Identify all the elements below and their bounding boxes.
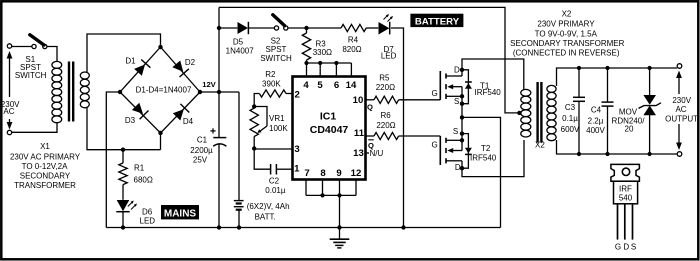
svg-text:G: G (432, 89, 438, 98)
node battery rail junction (237, 225, 241, 229)
svg-text:C1: C1 (197, 136, 208, 145)
node bridge left (118, 90, 122, 94)
resistor R1 (119, 150, 127, 200)
svg-text:10: 10 (353, 95, 364, 106)
diode D5 (238, 22, 249, 34)
transformer X1 (52, 61, 89, 122)
node output terminal bottom (677, 152, 682, 157)
bridge rectifier arms (120, 47, 161, 92)
svg-text:11: 11 (354, 128, 365, 139)
svg-text:8: 8 (320, 168, 326, 179)
wire 12V node to C1 column (200, 91, 239, 93)
resistor R3 (302, 28, 310, 63)
switch S2 (273, 15, 288, 30)
wire (249, 27, 274, 29)
node T2 drain (460, 166, 464, 170)
svg-text:D6: D6 (142, 208, 153, 217)
230V AC output arrow (676, 71, 682, 151)
LED D6 (116, 200, 137, 228)
wire common source (461, 96, 463, 140)
node T2 source (460, 138, 464, 142)
wire bridge bottom stub (160, 133, 162, 150)
svg-text:2: 2 (295, 89, 300, 100)
svg-text:0.1µ: 0.1µ (562, 114, 578, 123)
svg-text:BATTERY: BATTERY (415, 16, 460, 27)
svg-text:CD4047: CD4047 (310, 124, 349, 136)
svg-text:X2: X2 (562, 10, 572, 19)
wire X2 secondary top to output rail (557, 68, 678, 86)
capacitor C4 (602, 68, 614, 154)
node D7 rail junction (401, 225, 405, 229)
svg-text:SWITCH: SWITCH (260, 54, 292, 63)
node bridge right 12V (198, 90, 202, 94)
node T1 body tie (460, 102, 464, 106)
node T1 source (460, 94, 464, 98)
svg-text:SECONDARY TRANSFORMER: SECONDARY TRANSFORMER (510, 39, 624, 48)
node ground rail junction (337, 225, 341, 229)
svg-text:230V: 230V (672, 96, 691, 105)
svg-text:AC: AC (675, 105, 686, 114)
svg-text:VR1: VR1 (269, 114, 285, 123)
ground (330, 228, 350, 248)
node common source junction (460, 115, 464, 119)
svg-text:390K: 390K (262, 80, 281, 89)
svg-text:S: S (631, 243, 636, 252)
svg-text:9: 9 (336, 168, 341, 179)
svg-text:OUTPUT: OUTPUT (665, 114, 698, 123)
wire common source to ground rail (462, 117, 501, 227)
varistor MOV (639, 68, 662, 154)
node C3 bottom (577, 152, 581, 156)
capacitor C2 (271, 164, 277, 175)
svg-text:T2: T2 (481, 144, 491, 153)
svg-text:2.2µ: 2.2µ (588, 117, 604, 126)
svg-text:D4: D4 (183, 117, 194, 126)
svg-text:7: 7 (304, 168, 309, 179)
svg-text:D: D (454, 65, 460, 74)
wire top rail to X2 center tap (219, 7, 520, 113)
wire D7 cathode down to rail (391, 28, 404, 228)
diode T1 body (462, 70, 472, 104)
svg-text:TO 9V-0-9V, 1.5A: TO 9V-0-9V, 1.5A (535, 29, 598, 38)
svg-text:IRF: IRF (619, 185, 632, 194)
resistor R2 (254, 90, 292, 105)
svg-text:G: G (432, 140, 438, 149)
label BATTERY (410, 14, 463, 27)
wire T2 drain to X2 bottom (462, 140, 524, 177)
node MOV top (648, 66, 652, 70)
node T1 drain (460, 68, 464, 72)
svg-text:540: 540 (619, 193, 633, 202)
svg-text:330Ω: 330Ω (313, 48, 332, 57)
svg-text:AC: AC (3, 107, 14, 116)
svg-text:S: S (453, 127, 458, 136)
svg-text:LED: LED (140, 217, 156, 226)
capacitor C3 (573, 68, 585, 154)
svg-text:230V PRIMARY: 230V PRIMARY (537, 20, 595, 29)
svg-text:N/U: N/U (370, 149, 384, 158)
node input terminal top (7, 44, 11, 48)
svg-text:13: 13 (353, 148, 364, 159)
wire (12, 46, 32, 48)
svg-text:820Ω: 820Ω (342, 45, 361, 54)
resistor R4 (341, 24, 366, 31)
svg-text:R4: R4 (348, 35, 359, 44)
node MOV bottom (648, 152, 652, 156)
bottom rail (106, 227, 500, 229)
svg-text:TO 0-12V,2A: TO 0-12V,2A (22, 162, 68, 171)
svg-text:G: G (615, 243, 621, 252)
node C3 top (577, 66, 581, 70)
node output terminal top (677, 64, 682, 69)
node C4 bottom (605, 152, 609, 156)
switch S1 (30, 35, 47, 49)
svg-text:X2: X2 (535, 141, 545, 150)
svg-text:BATT.: BATT. (255, 213, 276, 222)
wire C2 branch (254, 149, 270, 169)
svg-text:S: S (454, 97, 459, 106)
diode T2 body (462, 134, 472, 169)
svg-text:6: 6 (334, 80, 339, 91)
node R3 top junction (304, 26, 308, 30)
svg-text:C4: C4 (591, 105, 602, 114)
svg-text:230V AC PRIMARY: 230V AC PRIMARY (10, 153, 81, 162)
svg-text:D1: D1 (125, 56, 136, 65)
svg-text:25V: 25V (193, 156, 208, 165)
wire (47, 47, 57, 63)
wire (366, 27, 378, 29)
svg-text:220Ω: 220Ω (376, 121, 395, 130)
potentiometer VR1 (250, 107, 267, 149)
node X2 center tap (517, 111, 521, 115)
svg-text:LED: LED (381, 51, 397, 60)
svg-text:220Ω: 220Ω (376, 83, 395, 92)
battery B1 (234, 201, 244, 228)
capacitor C1 (210, 128, 226, 146)
node D5 anode junction (217, 26, 221, 30)
node C1 rail junction (217, 225, 221, 229)
node R1 top junction (121, 148, 125, 152)
svg-text:12: 12 (351, 168, 362, 179)
svg-text:400V: 400V (586, 126, 605, 135)
wire battery branch down (238, 92, 240, 200)
package IRF540 (611, 164, 640, 239)
node 12V junction C1 (217, 90, 221, 94)
svg-text:D: D (623, 243, 629, 252)
node bottom bus dots (320, 193, 324, 197)
svg-text:D2: D2 (185, 58, 196, 67)
svg-text:D: D (455, 163, 461, 172)
resistor R6 (366, 132, 441, 139)
svg-text:X1: X1 (40, 142, 50, 151)
svg-text:SPST: SPST (266, 45, 287, 54)
svg-text:C2: C2 (269, 176, 280, 185)
svg-text:IC1: IC1 (320, 110, 337, 122)
label MAINS (161, 205, 199, 219)
230V AC input arrow (7, 51, 13, 130)
svg-text:IRF540: IRF540 (475, 88, 502, 97)
svg-text:680Ω: 680Ω (134, 176, 153, 185)
svg-text:MOV: MOV (619, 108, 638, 117)
svg-text:C3: C3 (565, 103, 576, 112)
node VR1 top junction (252, 104, 256, 108)
svg-text:D5: D5 (233, 38, 244, 47)
node C4 top (605, 66, 609, 70)
wire (277, 168, 293, 170)
diode D4 (173, 104, 190, 121)
wire X2 secondary bottom to output rail (557, 140, 678, 154)
wire T1 drain to X2 top (462, 59, 524, 90)
svg-text:(6X2)V, 4Ah: (6X2)V, 4Ah (247, 202, 290, 211)
node bus dots (304, 61, 308, 65)
resistor R5 (366, 96, 441, 103)
svg-text:1: 1 (294, 164, 300, 175)
svg-text:TRANSFORMER: TRANSFORMER (14, 181, 76, 190)
wire (288, 27, 341, 29)
svg-text:SECONDARY: SECONDARY (20, 172, 71, 181)
svg-text:100K: 100K (269, 124, 288, 133)
LED D7 (379, 14, 394, 35)
node VR1 bottom junction (252, 146, 256, 150)
svg-text:MAINS: MAINS (164, 208, 197, 219)
wire secondary bottom (87, 108, 161, 150)
svg-text:R5: R5 (379, 74, 390, 83)
svg-text:Q: Q (367, 103, 373, 112)
svg-text:14: 14 (346, 80, 357, 91)
svg-text:(CONNECTED IN REVERSE): (CONNECTED IN REVERSE) (513, 49, 620, 58)
wire C1 column (218, 7, 220, 137)
svg-text:R2: R2 (265, 70, 276, 79)
svg-text:SWITCH: SWITCH (15, 71, 47, 80)
diode D3 (132, 103, 149, 120)
diode D1 (134, 60, 150, 76)
svg-text:R6: R6 (380, 111, 391, 120)
node T2 body tie (460, 131, 464, 135)
svg-text:2200µ: 2200µ (190, 146, 213, 155)
op-amp IC1 box (293, 77, 366, 180)
svg-text:4: 4 (303, 80, 309, 91)
wire secondary top to bridge top (87, 34, 161, 73)
wire pin stubs bottom bus (306, 180, 356, 228)
svg-text:12V: 12V (202, 80, 216, 89)
svg-text:D3: D3 (125, 116, 136, 125)
svg-text:0.01µ: 0.01µ (265, 186, 286, 195)
svg-text:IRF540: IRF540 (470, 154, 497, 163)
diode D2 (172, 61, 189, 78)
transistor T2 (440, 136, 462, 168)
svg-text:5: 5 (317, 80, 323, 91)
node D6 bottom rail junction (121, 225, 125, 229)
transformer X2 (521, 82, 556, 143)
wire bridge left to negative rail (106, 92, 120, 228)
wire pin13 N/U stub (366, 152, 370, 154)
svg-text:R1: R1 (134, 164, 145, 173)
transistor T1 (440, 70, 462, 100)
wire primary bottom (12, 123, 57, 133)
wire pin stubs top bus (307, 63, 352, 77)
wire pin3 (254, 148, 292, 150)
svg-text:600V: 600V (561, 125, 580, 134)
wire (219, 27, 237, 29)
node bridge top (158, 45, 162, 49)
node input terminal bottom (7, 130, 11, 134)
svg-text:20: 20 (625, 125, 634, 134)
node bridge bottom (158, 131, 162, 135)
svg-text:1N4007: 1N4007 (226, 47, 255, 56)
svg-text:3: 3 (294, 144, 299, 155)
svg-text:D1-D4=1N4007: D1-D4=1N4007 (136, 85, 192, 94)
